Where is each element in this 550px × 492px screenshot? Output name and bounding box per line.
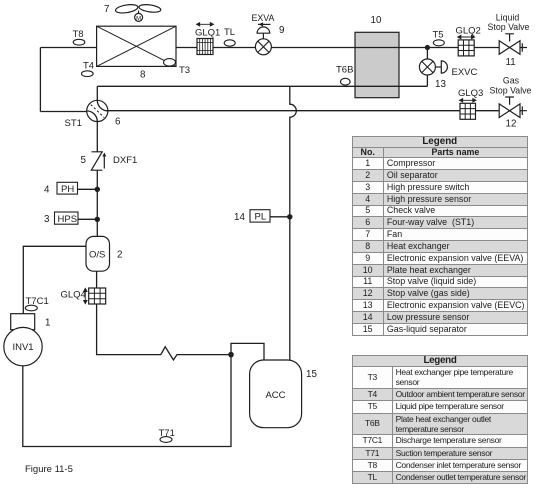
wire middle vertical with hop to ACC [290, 86, 297, 360]
node PH junction [95, 187, 100, 192]
sensor T4 [82, 71, 94, 77]
wire check valve to O/S [96, 170, 98, 236]
svg-text:M: M [136, 16, 141, 22]
svg-text:9: 9 [279, 25, 284, 36]
svg-text:EXVA: EXVA [252, 13, 275, 23]
plate heat exchanger 10 [355, 32, 399, 97]
svg-text:T4: T4 [83, 61, 94, 72]
sensor T71 [160, 437, 172, 443]
svg-text:Stop Valve: Stop Valve [490, 86, 532, 96]
expansion valve EXVC 13 [419, 59, 447, 75]
svg-text:1: 1 [45, 318, 50, 329]
wire liquid line (HX right to stop valve 11) [176, 47, 521, 49]
wire ST1 bottom to check valve [96, 121, 98, 152]
wire ST1 top riser [96, 86, 98, 100]
svg-text:T6B: T6B [336, 65, 353, 76]
filter GLQ4 [84, 288, 106, 304]
svg-text:HPS: HPS [58, 214, 78, 225]
svg-text:6: 6 [115, 117, 121, 128]
check valve DXF1 5 [91, 152, 106, 170]
svg-text:O/S: O/S [89, 250, 105, 261]
node PL junction [287, 214, 292, 219]
compressor INV1 1 [4, 314, 42, 366]
svg-text:INV1: INV1 [12, 342, 33, 353]
svg-text:GLQ3: GLQ3 [458, 88, 483, 99]
node HPS junction [95, 217, 100, 222]
wire gas line (ST1 right to stop valve 12) [108, 110, 521, 112]
wire left vertical [39, 48, 41, 112]
svg-text:Liquid: Liquid [496, 13, 520, 23]
wire EXVC vertical branch [426, 48, 428, 87]
sensor T5 [433, 40, 444, 46]
svg-text:ACC: ACC [265, 390, 285, 401]
expansion valve EXVA 9 [255, 22, 271, 55]
stop valve 11 (liquid) [499, 34, 527, 55]
wire PH stub [78, 188, 98, 190]
svg-text:7: 7 [104, 4, 109, 15]
oil separator O/S 2 [86, 236, 110, 271]
svg-text:Stop Valve: Stop Valve [488, 22, 530, 32]
sensor T7C1 [25, 305, 37, 311]
sensor T6B [341, 78, 351, 85]
svg-text:13: 13 [435, 79, 446, 90]
svg-text:4: 4 [44, 185, 50, 196]
svg-text:ST1: ST1 [65, 118, 82, 129]
filter GLQ1 [197, 23, 214, 55]
heat exchanger 8 [97, 26, 176, 66]
svg-text:EXVC: EXVC [452, 67, 478, 78]
high pressure switch HPS 3 [55, 212, 79, 224]
svg-text:11: 11 [506, 57, 516, 68]
svg-text:GLQ2: GLQ2 [456, 26, 481, 37]
svg-text:PL: PL [255, 212, 267, 223]
wire HPS stub [78, 218, 97, 220]
svg-text:8: 8 [140, 70, 146, 81]
node oil-return junction [228, 352, 234, 358]
figure caption [25, 464, 73, 475]
svg-text:5: 5 [81, 155, 87, 166]
legend table 2 (sensors) [352, 355, 528, 484]
accumulator ACC 15 [250, 360, 302, 428]
svg-text:T5: T5 [433, 30, 444, 41]
wire discharge top-left to heat exchanger [40, 47, 96, 49]
stop valve 12 (gas) [499, 97, 527, 118]
wire suction line [23, 355, 231, 447]
svg-text:12: 12 [506, 119, 517, 130]
node T5 junction [425, 45, 430, 50]
svg-text:3: 3 [44, 214, 50, 225]
sensor TL [224, 40, 235, 46]
wire into ST1 left port [40, 111, 87, 113]
svg-text:14: 14 [234, 212, 245, 223]
svg-text:2: 2 [117, 250, 122, 261]
legend table 1 (parts) [352, 136, 529, 336]
four-way valve ST1 6 [87, 100, 108, 121]
svg-text:T3: T3 [179, 65, 190, 76]
wire oil return with break symbol [97, 271, 231, 360]
svg-text:T8: T8 [73, 29, 84, 40]
high pressure sensor PH 4 [57, 182, 78, 194]
svg-text:PH: PH [61, 184, 74, 195]
wire upper branch to plate HX and EXVC [97, 85, 427, 87]
wire PL stub [270, 216, 290, 218]
wire O/S left to compressor [23, 246, 86, 313]
svg-text:15: 15 [306, 369, 317, 380]
svg-text:DXF1: DXF1 [113, 155, 137, 166]
filter GLQ2 [458, 35, 475, 56]
svg-text:Gas: Gas [503, 76, 520, 86]
svg-text:10: 10 [371, 15, 382, 26]
sensor T8 [73, 39, 85, 45]
filter GLQ3 [460, 99, 477, 120]
fan 7 [115, 3, 161, 21]
low pressure sensor PL 14 [250, 210, 270, 222]
svg-text:GLQ4: GLQ4 [61, 290, 86, 301]
svg-text:T7C1: T7C1 [26, 296, 49, 307]
sensor T3 [164, 59, 176, 66]
wire ACC outlet loop [231, 343, 264, 360]
svg-text:T71: T71 [159, 428, 175, 439]
svg-text:GLQ1: GLQ1 [195, 28, 220, 39]
svg-text:TL: TL [224, 27, 235, 38]
